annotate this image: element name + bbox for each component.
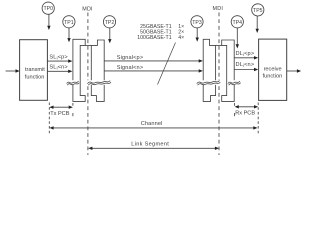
svg-text:Rx PCB: Rx PCB — [235, 111, 255, 117]
svg-text:TP5: TP5 — [253, 8, 263, 14]
svg-text:SLi<n>: SLi<n> — [49, 64, 67, 70]
break symbol right-C — [196, 80, 220, 85]
dimension Tx PCB — [49, 106, 73, 118]
svg-text:TP4: TP4 — [233, 20, 243, 26]
wire TP4 arrow — [236, 28, 239, 49]
svg-text:MDI: MDI — [213, 6, 223, 12]
svg-text:100GBASE-T1: 100GBASE-T1 — [137, 35, 171, 41]
svg-text:receive: receive — [264, 67, 282, 73]
svg-text:TP3: TP3 — [192, 20, 202, 26]
break symbol left-A — [66, 80, 79, 85]
wire output arrow from receive function — [287, 69, 301, 72]
svg-text:function: function — [25, 74, 45, 80]
receive function block — [259, 39, 287, 100]
svg-text:function: function — [263, 73, 283, 79]
wire TP3 arrow — [196, 28, 199, 42]
break symbol left-B — [87, 80, 111, 85]
svg-text:DLi<p>: DLi<p> — [236, 51, 255, 57]
connector left piece B (cable side) — [91, 40, 104, 101]
svg-text:TP0: TP0 — [43, 6, 53, 12]
break symbol right-D — [228, 80, 241, 85]
svg-text:Signal<p>: Signal<p> — [117, 55, 144, 61]
wire SL<p> — [47, 59, 72, 62]
wire Rx PCB extension tick — [234, 103, 236, 106]
wire Tx PCB extension dashed — [48, 103, 50, 135]
wire Signal<p> — [104, 59, 203, 62]
connector right piece C (cable side) — [203, 39, 215, 101]
node TP2 — [103, 16, 115, 28]
svg-text:TP2: TP2 — [105, 20, 115, 26]
svg-text:MDI: MDI — [82, 7, 92, 13]
svg-text:SLi<p>: SLi<p> — [49, 54, 67, 60]
wire Signal<n> — [104, 69, 203, 72]
wire TP5 arrow — [256, 16, 259, 33]
node MDI right dashed line — [218, 13, 220, 156]
transmit function block — [20, 40, 48, 101]
connector right mating step — [216, 44, 222, 46]
node MDI left dashed line — [87, 13, 89, 156]
wire SL<n> — [47, 70, 72, 73]
wire TP0 arrow — [47, 14, 50, 30]
svg-text:transmit: transmit — [25, 67, 45, 73]
wire Rx extension dashed — [257, 103, 259, 135]
wire TP1 extension tick — [72, 103, 74, 106]
svg-text:Tx PCB: Tx PCB — [50, 111, 70, 117]
dimension Link Segment — [88, 142, 219, 150]
dimension Channel — [49, 121, 257, 129]
wire TP1 arrow — [67, 28, 70, 42]
svg-text:4×: 4× — [178, 35, 184, 41]
svg-text:Link Segment: Link Segment — [131, 142, 169, 148]
svg-text:Channel: Channel — [141, 121, 163, 127]
connector left mating step — [85, 44, 91, 46]
node TP1 — [63, 16, 75, 28]
connector left piece A (PCB side) — [73, 39, 85, 101]
wire lane-count slash — [158, 43, 176, 85]
wire TP2 arrow — [108, 28, 111, 43]
wire DL<p> — [234, 56, 258, 59]
node TP3 — [191, 16, 203, 28]
svg-text:DLi<n>: DLi<n> — [236, 62, 255, 68]
wire DL<n> — [234, 68, 258, 71]
connector right piece D (PCB side) — [222, 40, 235, 101]
dimension Rx PCB — [235, 105, 259, 116]
svg-text:TP1: TP1 — [64, 20, 74, 26]
node TP4 — [231, 16, 243, 28]
wire input arrow into transmit function — [6, 69, 20, 72]
node TP0 — [42, 2, 54, 14]
node TP5 — [252, 4, 264, 16]
svg-text:Signal<n>: Signal<n> — [117, 65, 144, 71]
